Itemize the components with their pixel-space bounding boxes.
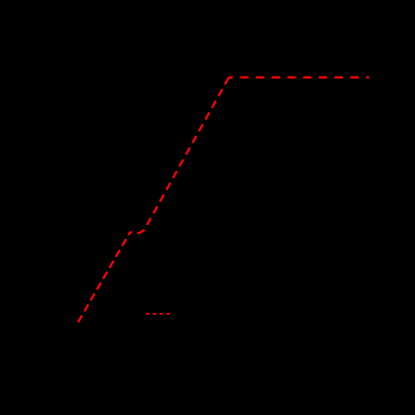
curve: lower rising dashed segment (red, lty=2)	[78, 232, 130, 322]
legend line sample (red, lty=2, lwd=1)	[146, 313, 170, 315]
curve: top plateau dashed segment	[229, 76, 369, 78]
curve: notch and upper rising dashed segment	[130, 77, 229, 232]
